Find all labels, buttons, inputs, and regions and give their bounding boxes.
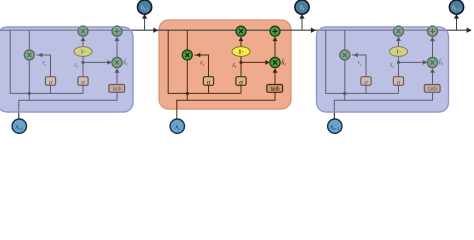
tanh box (109, 85, 125, 93)
wire: sigma_r output into reset multiply (36, 55, 50, 77)
wire: sigma_z drop to bus (82, 85, 84, 93)
wire: sigma_r drop to bus (365, 85, 367, 93)
h-line arrowhead (153, 28, 158, 33)
wire: 1- into line multiply (240, 41, 242, 47)
update multiply circle (270, 57, 280, 67)
wire: h-line down through reset multiply to bus (186, 30, 188, 100)
sigma_z box (78, 77, 88, 86)
output arrow up to h_t (301, 18, 303, 31)
left GRU cell body (0, 27, 133, 112)
h-line arrowhead (467, 28, 472, 33)
wire: x riser and bottom bus into tanh (334, 92, 432, 119)
wire: tanh into update multiply (432, 73, 434, 85)
update multiply circle (112, 57, 122, 67)
multiply on h-line (236, 26, 246, 36)
wire: x riser and bottom bus into tanh (19, 92, 117, 119)
output circle h_t-1 (138, 0, 152, 14)
junction dot (28, 92, 31, 95)
wire: h fork down to concat bus (168, 30, 241, 93)
right cell de-emphasis wash (316, 26, 449, 112)
wire: sigma_z output up to 1- ellipse (82, 56, 84, 76)
update multiply circle (427, 57, 437, 67)
sigma_r box (203, 77, 213, 86)
wire: sigma_z output up to 1- ellipse (240, 56, 242, 76)
plus on h-line (270, 26, 280, 36)
wire: sigma_r output into reset multiply (352, 55, 366, 77)
middle GRU cell body (highlighted timestep) (159, 20, 291, 109)
1- ellipse (74, 47, 92, 57)
tanh box (424, 85, 440, 93)
wire: sigma_z drop to bus (240, 85, 242, 93)
sigma_z box (393, 77, 403, 86)
wire: sigma_z output up to 1- ellipse (398, 56, 400, 76)
multiply on h-line (394, 26, 404, 36)
wire: sigma_r drop to bus (208, 85, 210, 93)
wire: z branch into update multiply (241, 61, 266, 63)
reset multiply circle (340, 50, 350, 60)
wire: update multiply into plus (432, 41, 434, 57)
wire: sigma_r output into reset multiply (194, 55, 208, 77)
wire: z branch into update multiply (399, 61, 424, 63)
1- ellipse (390, 47, 408, 57)
1- ellipse (232, 47, 250, 57)
sigma_r box (45, 77, 55, 86)
wire: h fork down to concat bus (10, 30, 83, 93)
input circle x_t (170, 119, 184, 133)
reset multiply circle (182, 50, 192, 60)
wire: update multiply into plus (116, 41, 118, 57)
svg-text:σ: σ (239, 78, 243, 86)
right GRU cell body (317, 27, 449, 112)
left cell de-emphasis wash (0, 26, 134, 112)
multiply on h-line (78, 26, 88, 36)
output arrow up to h_t+1 (456, 18, 458, 31)
svg-text:1-: 1- (238, 49, 243, 56)
wire: tanh into update multiply (274, 73, 276, 85)
reset multiply circle (24, 50, 34, 60)
output circle h_t+1 (449, 0, 463, 14)
wire: z branch into update multiply (83, 61, 108, 63)
wire: 1- into line multiply (82, 41, 84, 47)
input circle x_t+1 (328, 119, 342, 133)
wire: sigma_r drop to bus (50, 85, 52, 93)
sigma_z box (236, 77, 246, 86)
wire: 1- into line multiply (398, 41, 400, 47)
wire: h-line down through reset multiply to bus (28, 30, 30, 100)
junction dot (186, 92, 189, 95)
svg-text:σ: σ (207, 78, 211, 86)
h-line arrowhead (311, 28, 316, 33)
output arrow up to h_t-1 (144, 18, 146, 31)
tanh box (267, 85, 283, 93)
output circle h_t (295, 0, 309, 14)
wire: update multiply into plus (274, 41, 276, 57)
wire: sigma_z drop to bus (398, 85, 400, 93)
wire: x riser and bottom bus into tanh (177, 92, 275, 119)
wire: h-line down through reset multiply to bus (344, 30, 346, 100)
main recurrent h line (0, 29, 471, 31)
svg-text:tanh: tanh (271, 87, 280, 93)
junction dot (343, 92, 346, 95)
plus on h-line (428, 26, 438, 36)
sigma_r box (361, 77, 371, 86)
wire: h fork down to concat bus (326, 30, 399, 93)
input circle x_t-1 (12, 119, 26, 133)
plus on h-line (112, 26, 122, 36)
wire: tanh into update multiply (116, 73, 118, 85)
